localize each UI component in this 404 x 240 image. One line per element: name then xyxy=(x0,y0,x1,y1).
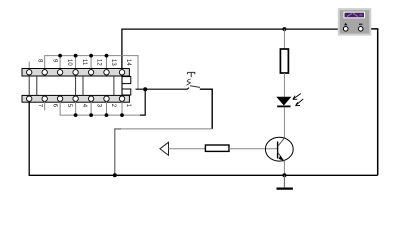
node dot switch junction xyxy=(143,87,147,91)
LED D1 cathode bar xyxy=(277,105,290,107)
resistor R2 horizontal xyxy=(205,145,229,151)
node dot net B x91.1 xyxy=(89,113,93,117)
wire inter-row vertical b xyxy=(36,76,38,95)
wire C switch to ground riser xyxy=(120,128,212,130)
power supply BT1 minus marker xyxy=(359,23,362,25)
transistor Q1 emitter stroke with arrow xyxy=(278,152,285,162)
IC U1 top row body xyxy=(22,69,129,77)
wire stub pin10 to net A xyxy=(59,56,61,70)
transistor Q1 collector stroke xyxy=(278,138,285,147)
wire R1 to LED D1 xyxy=(283,73,285,97)
switch S1 left lead xyxy=(136,88,190,90)
wire inter-row vertical d xyxy=(82,76,84,95)
wire pin14 to pin1 column xyxy=(121,72,123,98)
wire top rail V+ xyxy=(122,29,346,70)
wire stub pin11 to net A xyxy=(75,56,77,70)
power supply BT1 minus terminal xyxy=(358,27,363,32)
resistor R1 vertical xyxy=(280,49,288,73)
wire stub bottom pin x106.5 to net B xyxy=(106,101,108,115)
IC U1 pin circles top row xyxy=(27,70,125,75)
node dot net B x75.6 xyxy=(74,113,78,117)
LED D1 photon arrow 2 xyxy=(296,99,304,106)
switch S1 lever xyxy=(190,86,200,88)
wire net B riser to switch node xyxy=(140,89,145,115)
node dot net B x122.0 xyxy=(120,113,124,117)
LED D1 triangle xyxy=(277,97,290,105)
node dot wire C at ground rail xyxy=(113,173,117,177)
wire pin14 side loop upper xyxy=(122,77,131,84)
node junction dot top rail to R1 xyxy=(282,27,286,31)
svg-text:14: 14 xyxy=(125,59,131,66)
svg-text:12: 12 xyxy=(96,59,102,66)
wire bottom ground rail xyxy=(29,99,378,176)
IC U1 pin number labels top row 8-14 xyxy=(37,59,131,66)
wire stub bottom pin x75.6 to net B xyxy=(75,101,77,115)
LED D1 photon arrow 1 xyxy=(293,94,301,100)
wire speaker to resistor R2 xyxy=(169,148,206,150)
ground symbol xyxy=(277,188,293,190)
svg-text:10: 10 xyxy=(66,59,72,66)
wire stub bottom pin x122.0 to net B xyxy=(121,101,123,115)
node dot net A x75.6 xyxy=(74,54,78,58)
wire pin8-pin7 column xyxy=(28,72,30,98)
power supply BT1 plus terminal xyxy=(343,27,348,32)
node dot net A x106.5 xyxy=(105,54,109,58)
svg-text:11: 11 xyxy=(81,59,87,66)
power supply BT1 body xyxy=(339,9,371,34)
transistor Q1 base bar xyxy=(277,142,279,159)
node dot net A x60.1 xyxy=(58,54,62,58)
wire gray net B below IC xyxy=(60,101,140,115)
wire stub bottom pin x91.1 to net B xyxy=(90,101,92,115)
wire Q1 emitter to rail xyxy=(283,162,285,176)
transistor Q1 circle xyxy=(265,137,293,161)
wire top rail to resistor R1 xyxy=(283,29,285,49)
node dot emitter at rail xyxy=(282,173,286,177)
wire pin8 leader stub xyxy=(28,62,30,71)
wire pin1 side loop lower xyxy=(122,89,131,95)
IC U1 bottom row body xyxy=(22,95,129,102)
wire stub pin13 to net A xyxy=(106,56,108,70)
wire rail to ground xyxy=(283,175,285,188)
wire pin11-pin4 column xyxy=(75,72,77,98)
wire right vertical from supply minus to bottom rail xyxy=(363,29,378,175)
switch S1 plunger T xyxy=(188,72,195,77)
switch S1 right lead xyxy=(200,89,212,129)
wire LED to Q1 collector xyxy=(283,107,285,138)
power supply BT1 plus marker xyxy=(344,23,347,25)
wire pin6 leader stub down xyxy=(44,101,46,110)
wire stub pin12 to net A xyxy=(90,56,92,70)
IC U1 pin circles bottom row xyxy=(27,96,125,101)
wire inter-row vertical e xyxy=(113,76,115,95)
wire gray net A over IC to switch xyxy=(45,56,138,89)
power supply BT1 display xyxy=(344,12,365,18)
IC U1 pin number labels bottom row 7-1 xyxy=(37,104,131,108)
speaker LS1 triangle xyxy=(160,142,169,155)
node dot net A x91.1 xyxy=(89,54,93,58)
switch S1 spring squiggle xyxy=(187,79,191,85)
wire R2 to Q1 base xyxy=(229,148,278,150)
svg-text:13: 13 xyxy=(110,59,116,66)
node dot net B x106.5 xyxy=(105,113,109,117)
